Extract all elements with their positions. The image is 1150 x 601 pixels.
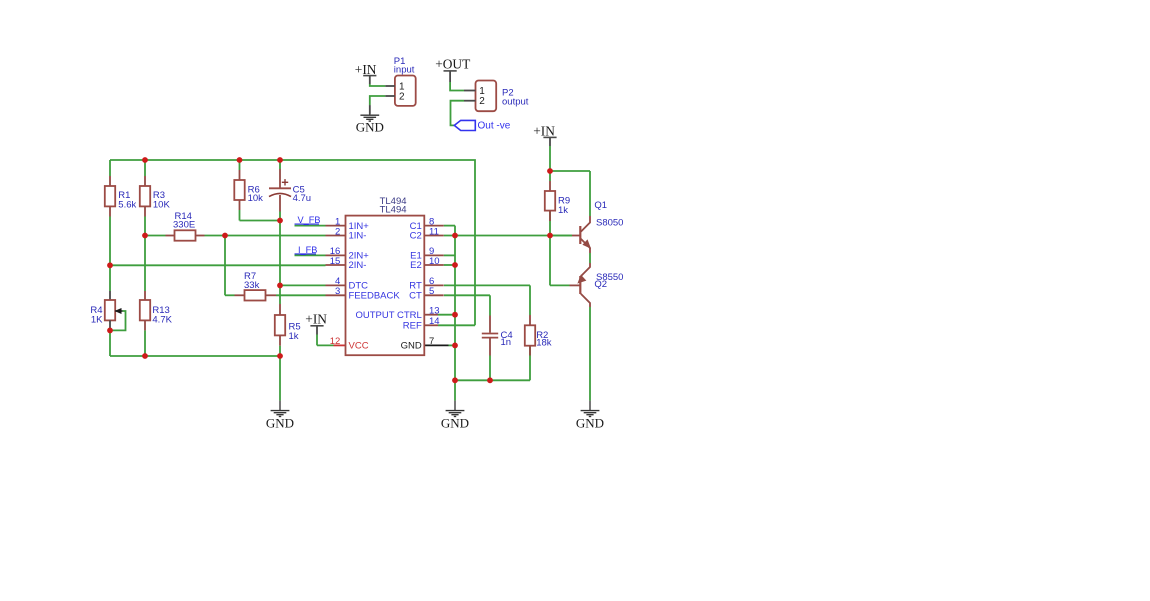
svg-text:1IN-: 1IN-	[349, 231, 367, 242]
svg-text:2: 2	[479, 96, 485, 107]
svg-text:4.7u: 4.7u	[293, 193, 312, 204]
svg-text:I_FB: I_FB	[298, 245, 317, 255]
svg-text:5.6k: 5.6k	[118, 199, 136, 210]
svg-text:GND: GND	[356, 120, 384, 135]
svg-text:+IN: +IN	[533, 123, 555, 138]
svg-text:C2: C2	[410, 231, 422, 242]
svg-text:12: 12	[330, 336, 341, 347]
svg-text:OUTPUT CTRL: OUTPUT CTRL	[355, 310, 421, 321]
svg-text:2: 2	[399, 91, 405, 102]
svg-text:Out -ve: Out -ve	[478, 120, 511, 131]
svg-text:GND: GND	[576, 416, 604, 431]
svg-text:E2: E2	[410, 260, 422, 271]
svg-text:1k: 1k	[558, 205, 568, 216]
svg-text:+OUT: +OUT	[435, 57, 470, 72]
svg-text:10k: 10k	[248, 193, 264, 204]
svg-text:VCC: VCC	[349, 341, 369, 352]
svg-text:TL494: TL494	[380, 204, 407, 215]
svg-text:5: 5	[429, 286, 434, 297]
svg-text:GND: GND	[441, 416, 469, 431]
svg-text:11: 11	[429, 226, 439, 237]
svg-text:GND: GND	[401, 341, 422, 352]
svg-text:1k: 1k	[289, 331, 299, 342]
svg-text:+IN: +IN	[305, 312, 327, 327]
svg-text:S8050: S8050	[596, 217, 623, 228]
svg-text:Q2: Q2	[594, 279, 607, 290]
svg-text:1n: 1n	[501, 337, 512, 348]
svg-text:13: 13	[429, 306, 440, 317]
svg-text:33k: 33k	[244, 280, 260, 291]
svg-text:output: output	[502, 96, 529, 107]
svg-text:10: 10	[429, 256, 440, 267]
svg-text:V_FB: V_FB	[298, 215, 321, 225]
svg-text:1K: 1K	[91, 314, 103, 325]
svg-text:REF: REF	[403, 321, 422, 332]
svg-text:+IN: +IN	[355, 62, 377, 77]
svg-text:Q1: Q1	[594, 200, 607, 211]
svg-text:18k: 18k	[536, 338, 552, 349]
svg-text:FEEDBACK: FEEDBACK	[349, 291, 401, 302]
svg-text:2IN-: 2IN-	[349, 260, 367, 271]
svg-text:15: 15	[330, 256, 341, 267]
svg-text:330E: 330E	[173, 219, 195, 230]
svg-text:10K: 10K	[153, 199, 171, 210]
svg-text:4.7K: 4.7K	[152, 314, 172, 325]
svg-text:2: 2	[335, 226, 340, 237]
svg-text:GND: GND	[266, 416, 294, 431]
svg-text:input: input	[394, 65, 415, 76]
svg-text:3: 3	[335, 286, 340, 297]
svg-text:CT: CT	[409, 291, 422, 302]
svg-text:7: 7	[429, 336, 434, 347]
svg-text:14: 14	[429, 316, 440, 327]
